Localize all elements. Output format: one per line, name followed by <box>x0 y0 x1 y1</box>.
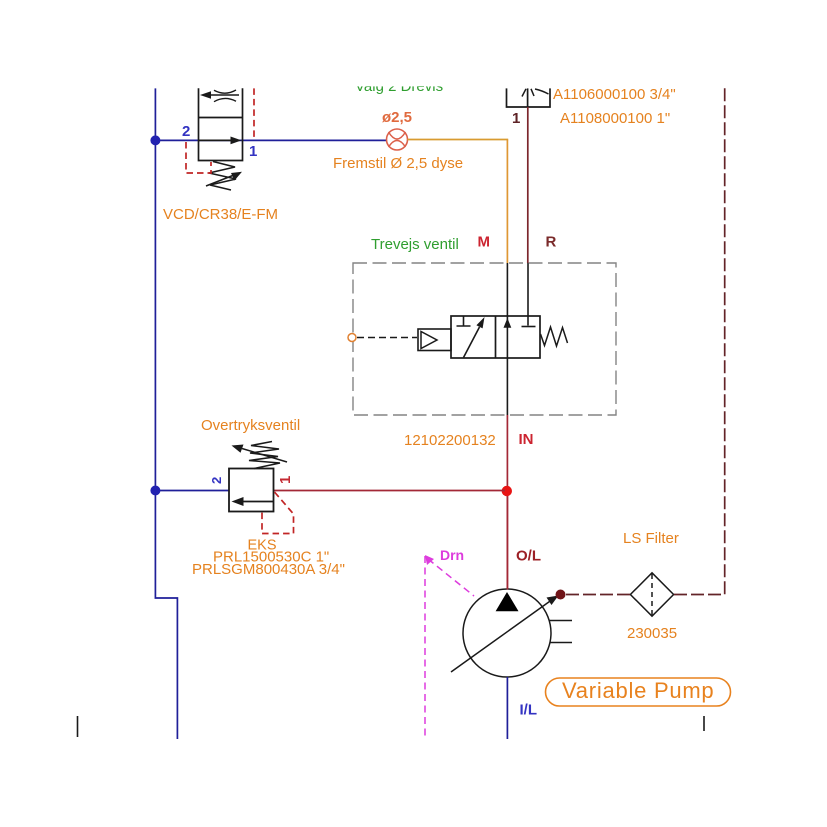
wire orange M vertical down <box>506 140 508 264</box>
valve V1 VCD/CR38/E-FM body <box>199 88 243 160</box>
actuator pilot box <box>418 329 451 351</box>
svg-text:ø2,5: ø2,5 <box>382 109 412 126</box>
valve V3 three-way body <box>451 316 540 358</box>
svg-text:1: 1 <box>249 143 257 160</box>
node orange pilot port circle <box>348 334 356 342</box>
pump P1 variable arrow <box>451 596 559 673</box>
node red junction <box>502 486 512 496</box>
valve V1 spring adjust arrow <box>206 172 242 186</box>
wire gold horizontal orifice to M corner <box>408 139 509 141</box>
valve V1 spring below <box>209 162 236 191</box>
svg-text:Overtryksventil: Overtryksventil <box>201 417 300 434</box>
relief valve RV spring <box>249 442 280 469</box>
svg-text:1: 1 <box>512 110 520 127</box>
pump P1 circle <box>463 589 551 677</box>
wire black vertical through V3 <box>506 263 508 415</box>
svg-text:A1108000100 1": A1108000100 1" <box>560 110 670 127</box>
wire dark red dashed filter to corner and up <box>674 88 725 595</box>
svg-text:O/L: O/L <box>516 548 541 565</box>
relief valve RV body <box>229 469 274 512</box>
svg-text:PRLSGM800430A 3/4": PRLSGM800430A 3/4" <box>192 561 345 578</box>
frame tick bottom left <box>77 716 79 737</box>
wire black dashed pilot <box>357 337 417 339</box>
valve V2 internal marks <box>522 89 549 97</box>
wire blue horizontal to orifice <box>155 139 387 141</box>
relief valve RV spring adjust arrow <box>232 445 288 463</box>
frame tick bottom right <box>703 716 705 731</box>
orifice O1 arcs <box>389 132 406 147</box>
label Variable Pump oval <box>546 678 731 706</box>
svg-text:2: 2 <box>182 123 190 140</box>
valve V3 left diagonal arrow <box>464 317 485 358</box>
valve V1 restrictor arcs <box>214 90 236 102</box>
valve V2 internal vertical <box>527 88 529 107</box>
valve V3 spring right <box>541 327 568 346</box>
valve V1 flow arrow right in lower box <box>199 137 242 145</box>
wire dark red R vertical <box>527 107 529 263</box>
orifice O1 circle <box>387 129 408 150</box>
node maroon LS junction <box>556 590 566 600</box>
valve V3 left T port <box>457 316 471 326</box>
pump P1 triangle <box>496 592 519 611</box>
valve V3 right T port <box>522 326 536 328</box>
svg-text:2: 2 <box>209 477 224 484</box>
svg-text:1: 1 <box>277 476 294 484</box>
svg-text:IN: IN <box>519 431 534 448</box>
crop mask top <box>0 0 827 86</box>
wire magenta drain dashed diagonal <box>428 559 474 596</box>
wire magenta drain dashed vertical <box>424 556 426 738</box>
svg-text:M: M <box>478 234 491 251</box>
svg-text:A1106000100 3/4": A1106000100 3/4" <box>553 86 676 103</box>
wire blue I/L below pump <box>506 677 508 739</box>
relief valve pilot dashed red <box>262 492 294 534</box>
svg-text:VCD/CR38/E-FM: VCD/CR38/E-FM <box>163 206 278 223</box>
wire red O/L node to pump <box>506 496 508 590</box>
svg-text:Variable Pump: Variable Pump <box>562 678 714 703</box>
dashed gray enclosure box <box>353 263 616 415</box>
wire blue supply vertical left <box>155 88 177 739</box>
valve V1 pilot dashed red left loop <box>186 142 211 173</box>
relief valve RV arrow left <box>232 497 274 506</box>
filter F1 dashed element <box>651 574 653 615</box>
wire red horizontal relief to node <box>274 490 505 492</box>
valve V3 up arrow <box>504 318 512 328</box>
svg-text:Trevejs ventil: Trevejs ventil <box>371 236 459 253</box>
wire black R inside box to T <box>527 263 529 326</box>
svg-text:I/L: I/L <box>520 702 538 719</box>
node blue junction upper <box>150 135 160 145</box>
node blue junction lower <box>150 486 160 496</box>
svg-text:Fremstil Ø 2,5 dyse: Fremstil Ø 2,5 dyse <box>333 155 463 172</box>
valve V1 pilot dashed red right <box>253 88 255 139</box>
pump P1 control stubs <box>549 621 572 643</box>
svg-text:Drn: Drn <box>440 547 464 563</box>
wire dark red dashed node to filter <box>566 594 630 596</box>
svg-text:230035: 230035 <box>627 625 677 642</box>
valve V1 flow-control arrow left <box>200 91 239 99</box>
arrow magenta drain <box>425 555 434 565</box>
wire blue horizontal to relief valve <box>155 490 229 492</box>
actuator triangle <box>421 332 437 349</box>
svg-text:R: R <box>546 234 557 251</box>
wire red IN vertical to node <box>506 415 508 589</box>
filter F1 diamond <box>630 573 673 616</box>
svg-text:LS Filter: LS Filter <box>623 530 679 547</box>
valve V2 top-right body (cropped) <box>507 88 551 107</box>
svg-text:12102200132: 12102200132 <box>404 432 496 449</box>
